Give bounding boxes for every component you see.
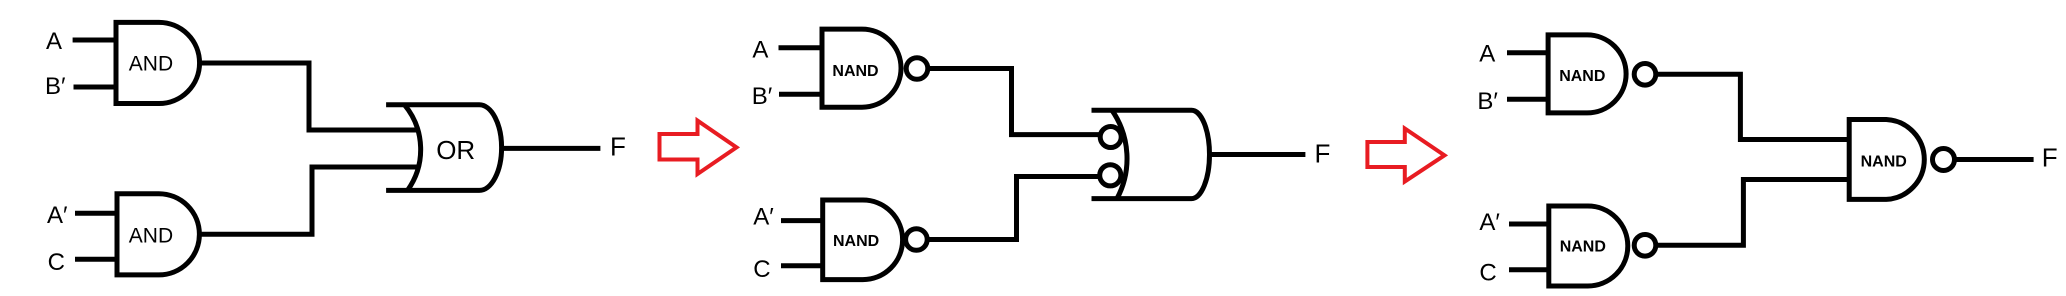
red block arrow 2 <box>1367 129 1444 182</box>
wire U5 output to OR bottom bubble <box>929 177 1099 240</box>
wire U8 output to U9 bottom input <box>1656 180 1849 246</box>
svg-text:A: A <box>752 37 768 64</box>
svg-text:F: F <box>1315 138 1331 168</box>
wire U3 output to F <box>502 146 601 151</box>
bubble U7 output <box>1634 64 1656 86</box>
NAND gate U9 <box>1849 120 1924 200</box>
bubble U6 top input <box>1100 127 1121 148</box>
NAND gate U5 <box>823 200 903 280</box>
wire input A <box>1507 50 1550 55</box>
NAND gate U8 <box>1549 206 1628 286</box>
wire input B' <box>779 92 824 97</box>
svg-text:B′: B′ <box>752 83 773 110</box>
wire input C <box>75 257 119 262</box>
bubble U8 output <box>1634 235 1656 257</box>
svg-text:NAND: NAND <box>1861 153 1907 170</box>
OR gate U3 <box>386 105 501 191</box>
wire U1 output to OR top input <box>200 63 417 130</box>
svg-text:B′: B′ <box>1477 88 1498 115</box>
wire U2 output to OR bottom input <box>199 167 417 234</box>
NAND gate U4 <box>822 29 901 107</box>
OR gate U6 with bubbled inputs <box>1092 110 1210 198</box>
svg-text:C: C <box>753 256 770 283</box>
svg-text:AND: AND <box>129 225 173 248</box>
svg-text:A: A <box>46 28 62 55</box>
svg-text:NAND: NAND <box>1559 68 1605 85</box>
wire input A <box>73 38 118 43</box>
svg-text:NAND: NAND <box>1560 238 1606 255</box>
wire input A' <box>1509 222 1551 227</box>
wire U6 output to F <box>1209 152 1305 157</box>
svg-text:C: C <box>48 249 65 276</box>
AND gate U2 <box>117 194 199 275</box>
svg-text:OR: OR <box>436 135 475 165</box>
svg-text:A′: A′ <box>1479 209 1500 236</box>
svg-text:NAND: NAND <box>833 233 879 250</box>
svg-text:AND: AND <box>129 53 173 76</box>
svg-text:F: F <box>2042 142 2058 172</box>
wire input B' <box>74 85 119 90</box>
wire U7 output to U9 top input <box>1656 74 1849 139</box>
svg-text:A′: A′ <box>47 202 68 229</box>
bubble U6 bottom input <box>1100 165 1121 186</box>
NAND gate U7 <box>1548 35 1626 113</box>
wire input A' <box>75 211 119 216</box>
wire input A' <box>781 218 825 223</box>
bubble U5 output <box>906 229 928 251</box>
svg-text:F: F <box>610 131 626 161</box>
bubble U4 output <box>906 58 928 80</box>
wire input C <box>1509 267 1551 272</box>
wire input A <box>779 45 825 50</box>
wire U4 output to OR top bubble <box>930 69 1099 135</box>
svg-text:B′: B′ <box>45 73 66 100</box>
red block arrow 1 <box>660 121 737 174</box>
svg-text:A: A <box>1479 41 1495 68</box>
wire input B' <box>1507 97 1550 102</box>
svg-text:NAND: NAND <box>832 63 878 80</box>
svg-text:C: C <box>1479 260 1496 287</box>
wire input C <box>781 263 825 268</box>
bubble U9 output <box>1933 149 1955 171</box>
AND gate U1 <box>116 22 200 103</box>
wire U9 output to F <box>1955 157 2034 162</box>
svg-text:A′: A′ <box>753 203 774 230</box>
